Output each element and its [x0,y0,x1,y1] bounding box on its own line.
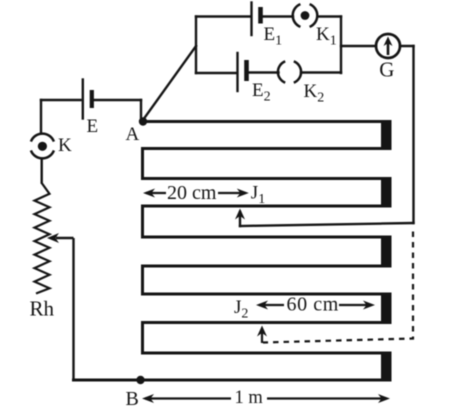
svg-text:G: G [379,58,394,82]
svg-text:1 m: 1 m [235,388,264,408]
svg-text:20 cm: 20 cm [167,182,217,204]
svg-text:B: B [126,388,139,410]
svg-text:60 cm: 60 cm [287,294,339,316]
svg-text:Rh: Rh [30,297,55,321]
svg-text:A: A [126,124,140,145]
svg-text:K: K [58,135,72,156]
svg-text:E: E [87,116,99,137]
